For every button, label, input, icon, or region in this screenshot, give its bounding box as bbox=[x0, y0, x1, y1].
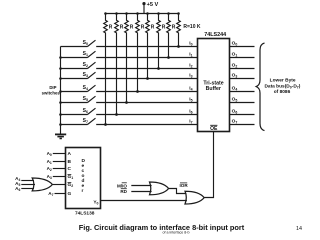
+5V supply terminal bbox=[142, 2, 145, 14]
svg-text:S3: S3 bbox=[83, 72, 88, 78]
or-gate G1 (M/IO + RD) bbox=[150, 182, 169, 195]
svg-text:A2: A2 bbox=[47, 166, 52, 172]
svg-text:A3: A3 bbox=[47, 174, 52, 180]
wire: RD input to gate G1 bbox=[131, 191, 151, 193]
svg-text:switches: switches bbox=[42, 90, 61, 95]
pin label G2 (active low) bbox=[68, 182, 74, 188]
wire: output O5 to data bus bbox=[230, 102, 255, 104]
ground bbox=[55, 134, 66, 138]
wire: pull-up R6 to switch row S2 bbox=[158, 33, 160, 69]
wire: DIP switch common ground bus bbox=[60, 47, 62, 135]
svg-text:O6: O6 bbox=[232, 109, 238, 115]
wire: row S3 to buffer input I3 bbox=[96, 78, 197, 80]
svg-text:RD: RD bbox=[120, 189, 127, 194]
wire: output O3 to data bus bbox=[230, 78, 255, 80]
net label IOR (active low) bbox=[180, 183, 189, 188]
svg-text:R: R bbox=[130, 25, 134, 31]
svg-text:A: A bbox=[68, 151, 72, 157]
wire: A2 to decoder bbox=[53, 168, 66, 170]
wire: gate G2 output to OE pin bbox=[204, 132, 213, 198]
wire: A5 into gate G3 bbox=[21, 184, 35, 186]
resistor R4 bbox=[136, 14, 145, 34]
junction dots on top rail bbox=[104, 12, 180, 15]
wire: pull-up R8 to switch row S0 bbox=[178, 33, 180, 47]
signal label M/IO (IO active low) bbox=[117, 183, 127, 188]
svg-text:A0: A0 bbox=[47, 151, 52, 157]
switch S1 bbox=[61, 51, 96, 58]
or-gate G3 (A4 A5 A6) bbox=[32, 178, 52, 191]
wire: output O6 to data bus bbox=[230, 114, 255, 116]
wire: gate G3 output to decoder pin G2 bbox=[52, 184, 65, 186]
junction dots pull-ups to rows bbox=[104, 45, 180, 126]
svg-text:r: r bbox=[82, 188, 84, 194]
wire: row S4 to buffer input I4 bbox=[96, 91, 197, 93]
tri-state buffer U1 74LS244 bbox=[198, 32, 230, 131]
DIP switches label bbox=[42, 85, 61, 96]
resistor R1 bbox=[104, 14, 113, 34]
svg-text:I4: I4 bbox=[189, 86, 192, 92]
wire: pull-up R3 to switch row S5 bbox=[126, 33, 128, 103]
svg-text:G1: G1 bbox=[68, 174, 74, 180]
svg-text:O3: O3 bbox=[232, 73, 238, 79]
svg-text:G: G bbox=[68, 191, 72, 197]
svg-text:S7: S7 bbox=[83, 118, 88, 124]
switch S0 bbox=[61, 40, 96, 47]
wire: IOR jog into gate G2 bbox=[169, 189, 187, 194]
svg-text:S0: S0 bbox=[83, 40, 88, 46]
svg-text:Y0: Y0 bbox=[93, 199, 98, 205]
data bus annotation bbox=[264, 78, 300, 95]
svg-text:I1: I1 bbox=[189, 52, 192, 58]
wire: row S1 to buffer input I1 bbox=[96, 57, 197, 59]
wire: +5V top rail bbox=[106, 13, 179, 15]
svg-text:O5: O5 bbox=[232, 97, 238, 103]
signal label RD (active low) bbox=[120, 189, 127, 194]
resistor R3 bbox=[125, 14, 134, 34]
svg-text:of a interface 8-b: of a interface 8-b bbox=[163, 231, 190, 235]
wire: A6 into gate G3 bbox=[21, 188, 34, 190]
decoder U2 74LS138 bbox=[66, 148, 101, 217]
wire: output O7 to data bus bbox=[230, 124, 255, 126]
wire: pull-up R7 to switch row S1 bbox=[168, 33, 170, 58]
wire: pull-up R1 to switch row S7 bbox=[105, 33, 107, 125]
wire: row S0 to buffer input I0 bbox=[96, 46, 197, 48]
wire: A4 into gate G3 bbox=[21, 180, 34, 182]
wire: output O0 to data bus bbox=[230, 46, 255, 48]
wire: row S6 to buffer input I6 bbox=[96, 114, 197, 116]
svg-text:S4: S4 bbox=[83, 85, 88, 91]
svg-text:O0: O0 bbox=[232, 41, 238, 47]
switch S6 bbox=[61, 108, 96, 115]
svg-text:R: R bbox=[109, 25, 113, 31]
svg-text:+5 V: +5 V bbox=[147, 2, 159, 8]
svg-text:S6: S6 bbox=[83, 108, 88, 114]
decoder vertical label bbox=[82, 158, 86, 194]
switch S4 bbox=[61, 85, 96, 92]
svg-text:Data bus(D0-D7): Data bus(D0-D7) bbox=[264, 83, 300, 89]
svg-text:I7: I7 bbox=[189, 119, 192, 125]
wire: output O1 to data bus bbox=[230, 57, 255, 59]
svg-text:I5: I5 bbox=[189, 97, 192, 103]
svg-text:C: C bbox=[68, 166, 72, 172]
svg-text:I3: I3 bbox=[189, 73, 192, 79]
wire: row S5 to buffer input I5 bbox=[96, 102, 197, 104]
wire: row S2 to buffer input I2 bbox=[96, 68, 197, 70]
svg-text:M/IO: M/IO bbox=[117, 183, 127, 188]
svg-text:S5: S5 bbox=[83, 96, 88, 102]
resistor R5 bbox=[146, 14, 155, 34]
wire: row S7 to buffer input I7 bbox=[96, 124, 197, 126]
switch S5 bbox=[61, 96, 96, 103]
svg-text:R: R bbox=[151, 25, 155, 31]
resistor R7 bbox=[167, 14, 176, 34]
switch S7 bbox=[61, 118, 96, 125]
svg-text:R: R bbox=[162, 25, 166, 31]
wire: decoder Y0 output to gate G2 bbox=[101, 200, 187, 202]
svg-text:O7: O7 bbox=[232, 119, 238, 125]
svg-text:74LS244: 74LS244 bbox=[204, 32, 226, 38]
wire: A7 to decoder pin G bbox=[55, 193, 66, 195]
svg-text:O4: O4 bbox=[232, 86, 238, 92]
svg-text:G2: G2 bbox=[68, 182, 74, 188]
svg-text:of 8086: of 8086 bbox=[274, 89, 291, 95]
svg-text:74LS138: 74LS138 bbox=[75, 211, 95, 217]
junction dots on ground bus bbox=[59, 56, 62, 126]
svg-text:OE: OE bbox=[210, 126, 218, 132]
svg-text:A1: A1 bbox=[47, 159, 52, 165]
pin label G1 (active low) bbox=[68, 174, 74, 180]
svg-text:Buffer: Buffer bbox=[206, 86, 221, 92]
switch S3 bbox=[61, 72, 96, 79]
svg-text:I2: I2 bbox=[189, 63, 192, 69]
svg-text:S1: S1 bbox=[83, 51, 88, 57]
wire: pull-up R2 to switch row S6 bbox=[116, 33, 118, 115]
svg-text:O1: O1 bbox=[232, 52, 238, 58]
svg-text:R: R bbox=[120, 25, 124, 31]
svg-text:O2: O2 bbox=[232, 63, 238, 69]
svg-text:14: 14 bbox=[296, 226, 302, 232]
data bus brace bbox=[256, 43, 264, 131]
wire: pull-up R5 to switch row S3 bbox=[147, 33, 149, 79]
resistor R2 bbox=[115, 14, 124, 34]
svg-text:I6: I6 bbox=[189, 109, 192, 115]
svg-text:Lower Byte: Lower Byte bbox=[270, 78, 296, 84]
svg-text:I0: I0 bbox=[189, 41, 192, 47]
wire: A0 to decoder bbox=[53, 153, 66, 155]
svg-text:S2: S2 bbox=[83, 62, 88, 68]
svg-text:R: R bbox=[141, 25, 145, 31]
or-gate G2 (IOR + Y0) bbox=[185, 191, 204, 204]
resistor R6 bbox=[157, 14, 166, 34]
svg-text:DIP: DIP bbox=[49, 85, 56, 90]
pin label OE (active low) bbox=[210, 125, 218, 132]
wire: M/IO input to gate G1 bbox=[131, 185, 151, 187]
svg-text:IOR: IOR bbox=[180, 183, 189, 188]
svg-text:R: R bbox=[172, 25, 176, 31]
switch S2 bbox=[61, 62, 96, 69]
svg-text:A7: A7 bbox=[48, 191, 53, 197]
svg-text:R=10 K: R=10 K bbox=[183, 24, 200, 30]
resistor R8 bbox=[177, 14, 181, 34]
wire: output O4 to data bus bbox=[230, 91, 255, 93]
wire: A1 to decoder bbox=[53, 161, 66, 163]
wire: output O2 to data bus bbox=[230, 68, 255, 70]
svg-text:B: B bbox=[68, 159, 72, 165]
wire: pull-up R4 to switch row S4 bbox=[137, 33, 139, 92]
svg-text:A6: A6 bbox=[15, 186, 20, 192]
wire: A3 to decoder bbox=[53, 176, 66, 178]
